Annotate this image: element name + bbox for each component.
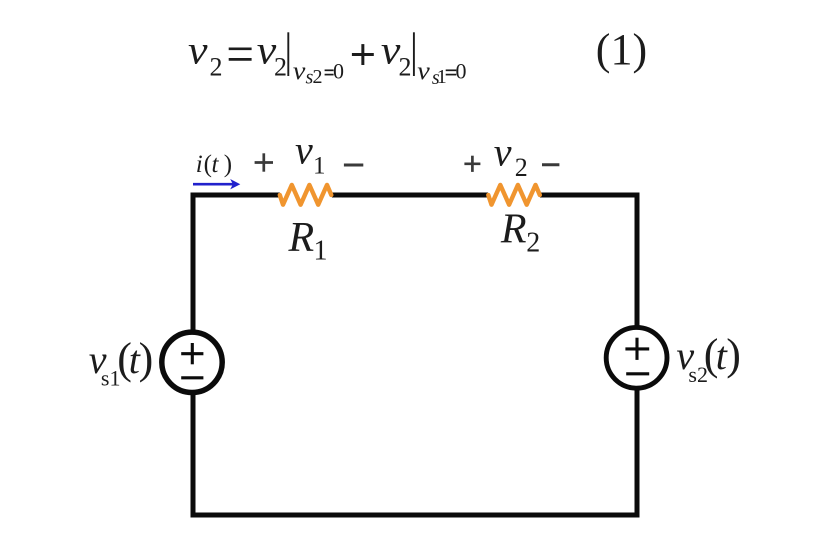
svg-text:2: 2 bbox=[399, 53, 412, 82]
svg-text:2: 2 bbox=[515, 153, 528, 182]
svg-text:2: 2 bbox=[526, 228, 540, 259]
svg-text:R: R bbox=[288, 215, 315, 261]
svg-text:v: v bbox=[295, 127, 313, 172]
svg-text:): ) bbox=[224, 151, 232, 178]
svg-text:1: 1 bbox=[313, 153, 326, 180]
svg-text:0: 0 bbox=[456, 59, 467, 84]
svg-text:): ) bbox=[726, 330, 741, 379]
svg-text:t: t bbox=[212, 151, 220, 178]
svg-text:v: v bbox=[494, 130, 512, 175]
svg-text:2: 2 bbox=[313, 66, 323, 88]
svg-text:2: 2 bbox=[210, 53, 223, 82]
svg-text:v: v bbox=[417, 58, 431, 85]
svg-text:): ) bbox=[139, 334, 154, 383]
svg-text:1: 1 bbox=[314, 235, 328, 266]
svg-text:v: v bbox=[293, 58, 307, 85]
svg-text:1: 1 bbox=[437, 66, 447, 88]
svg-text:2: 2 bbox=[274, 53, 287, 82]
svg-text:R: R bbox=[500, 206, 527, 252]
svg-text:i: i bbox=[196, 151, 203, 178]
svg-text:(1): (1) bbox=[596, 25, 647, 74]
svg-text:v: v bbox=[188, 28, 208, 73]
svg-text:0: 0 bbox=[333, 59, 344, 84]
